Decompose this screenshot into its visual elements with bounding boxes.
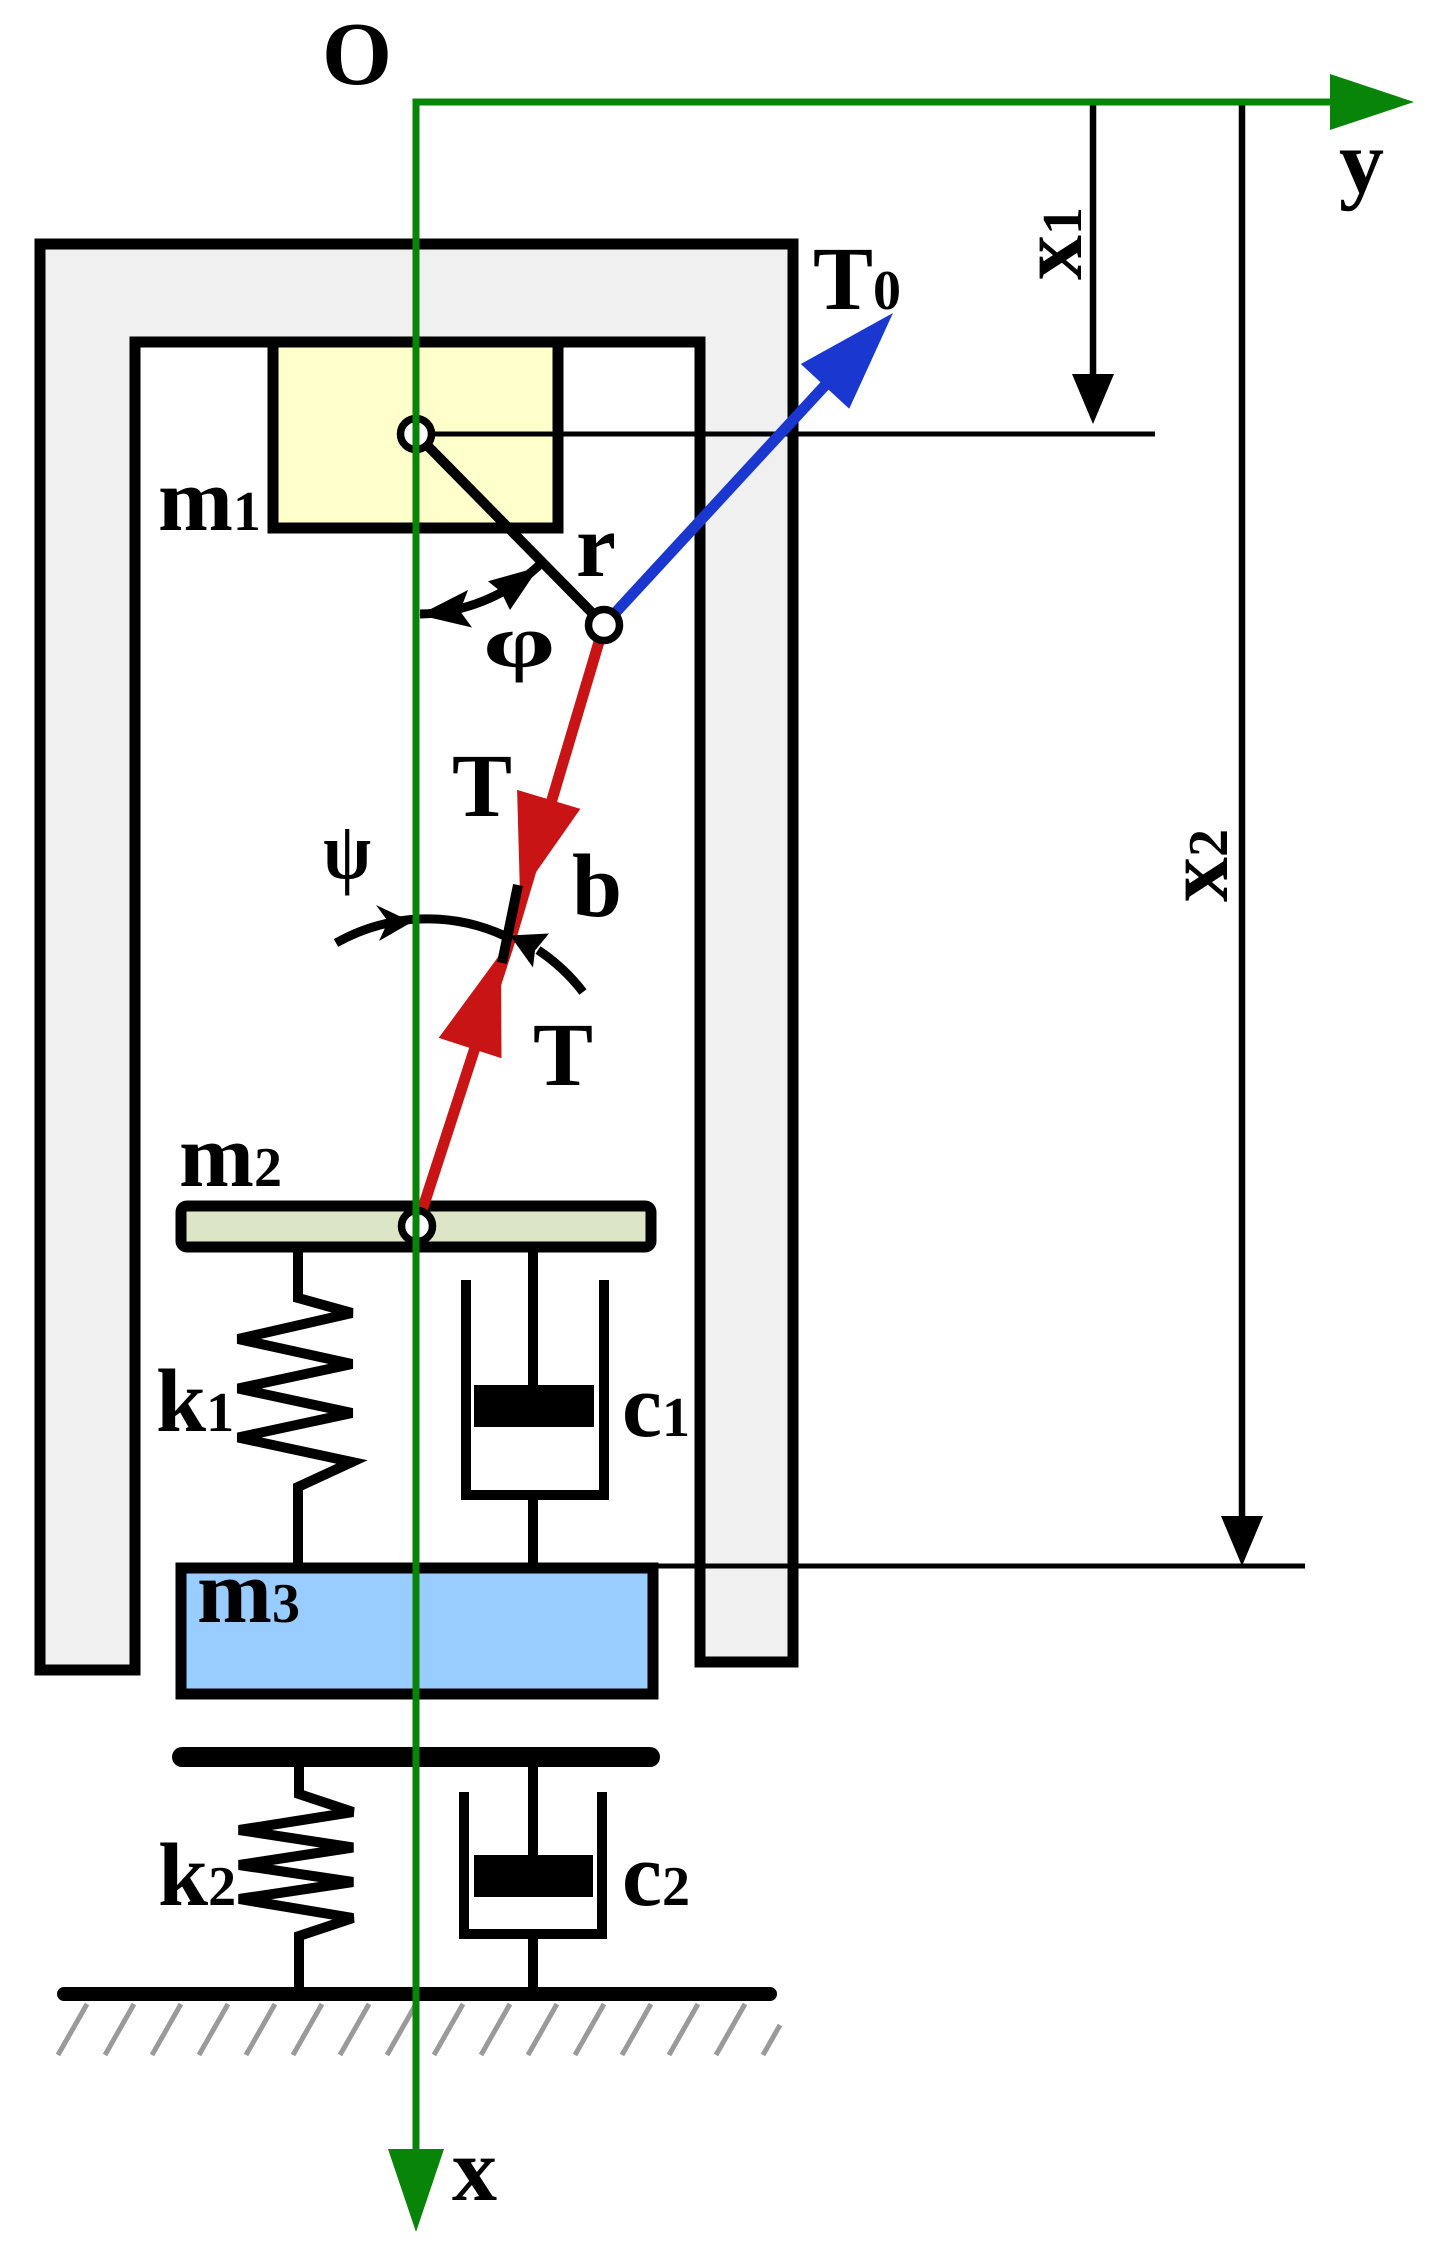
pin at m2 (402, 1211, 433, 1242)
green axis vertical (x) (413, 102, 420, 2152)
crank rod r (416, 434, 604, 625)
damper c2 lower rod (528, 1934, 538, 1994)
green x arrowhead (388, 2149, 444, 2232)
svg-text:T: T (533, 1006, 593, 1105)
reference line at m3 top (x2 datum) (653, 1564, 1305, 1569)
angle psi arc left (continues to b) (336, 919, 505, 943)
damper c1 lower rod (528, 1495, 538, 1575)
damper c1 piston (474, 1385, 594, 1427)
damper c2 piston rod (528, 1767, 538, 1890)
svg-text:T: T (452, 737, 512, 836)
reference line from m1 pin (x1 datum) (416, 432, 1155, 437)
dimension x1 arrowhead (1072, 374, 1114, 424)
rope T lower segment (red) (417, 934, 512, 1226)
dimension x2 arrowhead (1221, 1516, 1263, 1566)
svg-text:O: O (322, 5, 392, 104)
ground line (64, 1987, 770, 2001)
phi arrowhead at vertical axis (419, 590, 472, 628)
force T0 (blue arrow) (604, 380, 830, 625)
spring k2 (239, 1767, 353, 1990)
dimension x2 line (1239, 105, 1246, 1520)
mass m3 (blue block) (181, 1568, 653, 1694)
damper c2 cylinder (464, 1792, 602, 1934)
mass m2 (plate) (181, 1206, 651, 1247)
ground hatching (58, 2004, 780, 2055)
svg-text:ψ: ψ (323, 806, 371, 897)
angle phi double arrow arc (420, 566, 539, 614)
angle psi arc right (538, 950, 583, 992)
pin at crank end (589, 610, 620, 641)
green y arrowhead (1330, 74, 1414, 130)
dimension x1 line (1090, 105, 1097, 378)
psi arrowhead at b (510, 934, 549, 968)
red arrowhead T up along rope (439, 953, 502, 1058)
phi arrowhead at rod (488, 567, 539, 610)
svg-text:φ: φ (483, 601, 555, 683)
frame (fixed C-bracket) (40, 244, 793, 1670)
spring k1 (238, 1247, 352, 1568)
svg-text:y: y (1339, 113, 1384, 212)
damper c1 piston rod (528, 1247, 538, 1420)
svg-text:b: b (572, 837, 622, 936)
rope T upper segment (red) (512, 625, 604, 934)
damper c2 piston (474, 1855, 593, 1897)
psi arrowhead at axis (on arc) (376, 905, 412, 941)
rope tangent tick at b (502, 885, 518, 963)
damper c1 cylinder (466, 1280, 604, 1495)
base plate under m3 (182, 1747, 650, 1767)
svg-text:r: r (576, 497, 616, 596)
red arrowhead T down along rope (517, 790, 580, 895)
mass m1 (yellow block) (273, 342, 558, 528)
pin at m1 (401, 419, 432, 450)
svg-text:x: x (452, 2121, 497, 2220)
green axis horizontal (y) (413, 99, 1333, 106)
